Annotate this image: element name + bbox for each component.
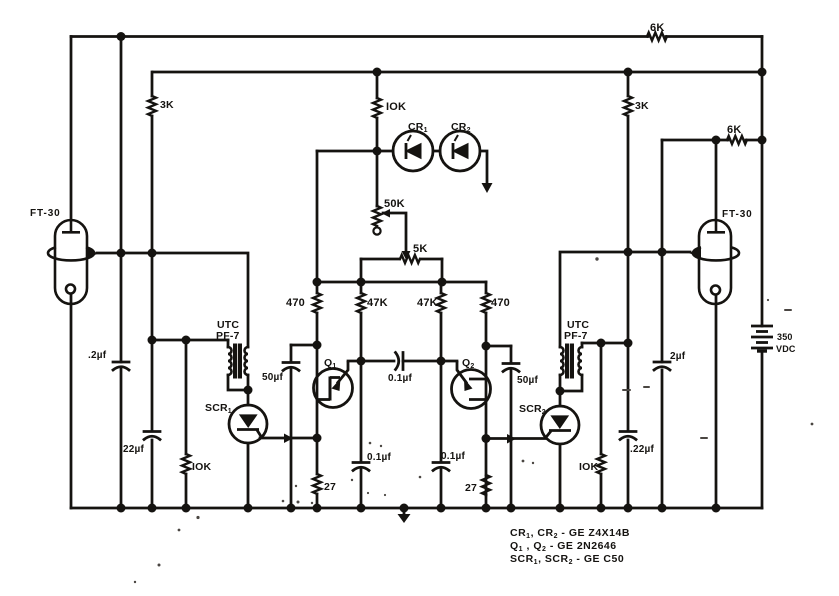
junction (716,140) <box>712 136 721 145</box>
tick inside CR1 <box>408 135 412 141</box>
resistor 6K (right) <box>727 136 747 144</box>
capacitor 50uf (left) <box>290 345 293 362</box>
junction (377,151) <box>373 147 382 156</box>
transformer UTC PF-7 (right) primary winding <box>560 347 564 375</box>
resistor 3K (right) <box>624 96 632 116</box>
svg-text:47K: 47K <box>367 297 388 309</box>
battery 350 VDC <box>751 326 773 351</box>
transformer UTC PF-7 (left) secondary winding <box>227 340 230 347</box>
transformer UTC PF-7 (left) primary winding <box>245 347 248 375</box>
junction (248,390) <box>244 386 253 395</box>
scan speckles (decorative) <box>134 257 814 583</box>
junction (762,72) <box>758 68 767 77</box>
junction (762,140) <box>758 136 767 145</box>
wire: left secondary top y=340 <box>152 339 228 342</box>
capacitor 22uf (left) plates <box>144 430 160 433</box>
transistor Q1 (UJT) <box>314 361 353 408</box>
wire: vertical x=152 (3K / 22uf branch) <box>151 72 154 96</box>
5K legs <box>360 259 363 282</box>
wire: 50uf left stub y=345 <box>291 344 317 347</box>
junction (486,346) <box>482 342 491 351</box>
tick inside CR2 <box>455 135 459 141</box>
junction (361,282) <box>357 278 366 287</box>
potentiometer 5K body <box>361 258 399 261</box>
svg-text:27: 27 <box>465 482 477 494</box>
capacitor 0.1uf (coupling) plates <box>396 353 399 370</box>
wire: right 3K line x=628 <box>627 72 630 96</box>
wire: 6K plate wire y=140 <box>662 139 728 142</box>
resistor 47K (left) line x=361 <box>360 282 363 293</box>
junction (377,72) <box>373 68 382 77</box>
svg-text:IOK: IOK <box>386 101 406 113</box>
svg-text:2µf: 2µf <box>670 351 686 362</box>
svg-text:.22µf: .22µf <box>630 444 654 455</box>
tube FT-30 (left) <box>48 220 94 304</box>
svg-text:47K: 47K <box>417 297 438 309</box>
junction (662,508) <box>658 504 667 513</box>
svg-text:IOK: IOK <box>579 461 598 473</box>
wire: right tube grid wire y=252 <box>560 252 690 347</box>
diode CR2 <box>440 131 480 171</box>
diode CR1 <box>393 131 433 171</box>
junction (152,340) <box>148 336 157 345</box>
junction (186,340) <box>182 336 191 345</box>
junction (186,508) <box>182 504 191 513</box>
capacitor 2uf (right) plates <box>654 361 670 364</box>
svg-text:22µf: 22µf <box>123 444 144 455</box>
resistor 6K (top) <box>647 33 667 41</box>
junction (601,343) <box>597 339 606 348</box>
svg-text:VDC: VDC <box>776 344 796 354</box>
wire: CR diode wire y=151 <box>317 150 393 153</box>
wire: left vertical x=71 <box>70 37 73 220</box>
junction (511,508) <box>507 504 516 513</box>
wire: divider bus y=282 <box>317 281 486 284</box>
capacitor .2uf (left) plates <box>113 361 129 364</box>
potentiometer 50K body <box>376 205 379 208</box>
wire: 50uf right stub y=346 <box>486 345 511 348</box>
svg-text:3K: 3K <box>160 99 174 111</box>
svg-text:FT-30: FT-30 <box>30 208 61 219</box>
50K end terminal circle <box>373 227 380 234</box>
transformer core (left) <box>233 344 574 379</box>
svg-text:PF-7: PF-7 <box>564 330 588 342</box>
junction (628,508) <box>624 504 633 513</box>
capacitor 0.1uf (left lower) <box>353 461 369 464</box>
junction (662,252) <box>658 248 667 257</box>
svg-text:27: 27 <box>324 481 336 493</box>
50K wiper arrowhead <box>382 209 391 218</box>
wire: SCR2 gate y=438.5 <box>486 437 545 440</box>
svg-text:350: 350 <box>777 332 793 342</box>
wire: bottom bus y=508 <box>71 507 762 510</box>
SCR1 <box>229 405 267 508</box>
svg-text:3K: 3K <box>635 100 649 112</box>
wire: right tube plate line x=716 <box>715 140 718 220</box>
wire: right 2uf line x=662 <box>661 140 664 362</box>
junction (441,361) <box>437 357 446 366</box>
capacitor .22uf (right) plates <box>620 430 636 433</box>
wire: vertical x=186 (10K left) <box>185 340 188 454</box>
ground <box>403 508 406 515</box>
junction (560,508) <box>556 504 565 513</box>
resistor 470 (left) line x=317 <box>316 151 319 293</box>
arrow (down) after CR2 <box>482 183 493 193</box>
transformer UTC PF-7 (right) secondary winding <box>581 343 584 347</box>
wire: right secondary top y=343 <box>582 342 628 345</box>
junction (628,343) <box>624 339 633 348</box>
tube FT-30 (right) grid arrow <box>689 248 701 259</box>
resistor 10K (left lower) <box>182 454 190 474</box>
svg-text:50K: 50K <box>384 198 405 210</box>
junction (441,508) <box>437 504 446 513</box>
Q1 emitter arrowhead <box>332 379 341 392</box>
resistor 3K (left) <box>148 96 156 116</box>
wire: SCR1 gate y=438 <box>260 437 317 440</box>
svg-text:FT-30: FT-30 <box>722 209 753 220</box>
SCR2 gate arrowhead <box>507 434 516 444</box>
SCR1 gate arrowhead <box>284 434 293 444</box>
junction (121,253) <box>117 249 126 258</box>
svg-text:470: 470 <box>491 297 510 309</box>
svg-text:0.1µf: 0.1µf <box>367 452 391 463</box>
junction (248,508) <box>244 504 253 513</box>
svg-text:Q1 , Q2 - GE 2N2646: Q1 , Q2 - GE 2N2646 <box>510 540 617 553</box>
wire: center 10K line x=377 <box>376 72 379 98</box>
resistor 47K (right) line x=441 <box>440 282 443 293</box>
svg-text:50µf: 50µf <box>262 372 283 383</box>
svg-text:5K: 5K <box>413 243 427 255</box>
svg-text:50µf: 50µf <box>517 375 538 386</box>
junction (716,508) <box>712 504 721 513</box>
tube FT-30 (left) grid arrow <box>86 248 98 259</box>
wire: top bus y=36.5 <box>71 35 648 38</box>
svg-text:0.1µf: 0.1µf <box>388 373 412 384</box>
wire: left tube grid wire y=253 <box>97 253 248 347</box>
junction (601,508) <box>597 504 606 513</box>
resistor 470 (right) line x=486 <box>485 282 488 293</box>
junction (317,438) <box>313 434 322 443</box>
capacitor 50uf (right) <box>510 346 513 363</box>
svg-text:0.1µf: 0.1µf <box>441 451 465 462</box>
wire: second bus y=72 <box>153 71 762 74</box>
wire: vertical x=121 (.2uf branch) <box>120 37 123 363</box>
svg-text:SCR1, SCR2 - GE C50: SCR1, SCR2 - GE C50 <box>510 553 624 566</box>
junction (486,508) <box>482 504 491 513</box>
junction (317,345) <box>313 341 322 350</box>
svg-text:6K: 6K <box>650 22 664 34</box>
junction (404,508) <box>400 504 409 513</box>
junction (361,361) <box>357 357 366 366</box>
junction (317,508) <box>313 504 322 513</box>
junction (486,438.5) <box>482 434 491 443</box>
wire: emitter coupling wire y=361 <box>348 360 394 363</box>
wire: right 10K line x=601 <box>600 343 603 454</box>
transformer core (right) <box>565 344 574 379</box>
svg-text:IOK: IOK <box>192 461 211 473</box>
resistor 10K (right lower) <box>597 454 605 474</box>
junction (121,508) <box>117 504 126 513</box>
junction (628,72) <box>624 68 633 77</box>
junction (121,36.5) <box>117 32 126 41</box>
junction (628,252) <box>624 248 633 257</box>
capacitor 0.1uf (right lower) <box>433 461 449 464</box>
junction (560,391) <box>556 387 565 396</box>
50K wiper wire <box>383 213 406 250</box>
junction (291,508) <box>287 504 296 513</box>
Q2 emitter arrowhead <box>464 379 473 392</box>
junction (317,282) <box>313 278 322 287</box>
svg-text:.2µf: .2µf <box>88 350 107 361</box>
junction (442,282) <box>438 278 447 287</box>
junction (152,253) <box>148 249 157 258</box>
transistor Q2 (UJT) <box>452 361 491 409</box>
junction (152,508) <box>148 504 157 513</box>
resistor 27 (right) <box>482 475 490 495</box>
svg-text:PF-7: PF-7 <box>216 330 240 342</box>
resistor 10K (top centre) <box>373 98 381 118</box>
junction (361,508) <box>357 504 366 513</box>
resistor 27 (left) <box>313 474 321 494</box>
SCR2 <box>541 406 579 508</box>
svg-text:6K: 6K <box>727 124 741 136</box>
5K wiper arrowhead <box>402 251 411 260</box>
svg-text:470: 470 <box>286 297 305 309</box>
wire: right edge vertical x=762 <box>761 37 764 327</box>
tube FT-30 (right) <box>693 220 739 304</box>
